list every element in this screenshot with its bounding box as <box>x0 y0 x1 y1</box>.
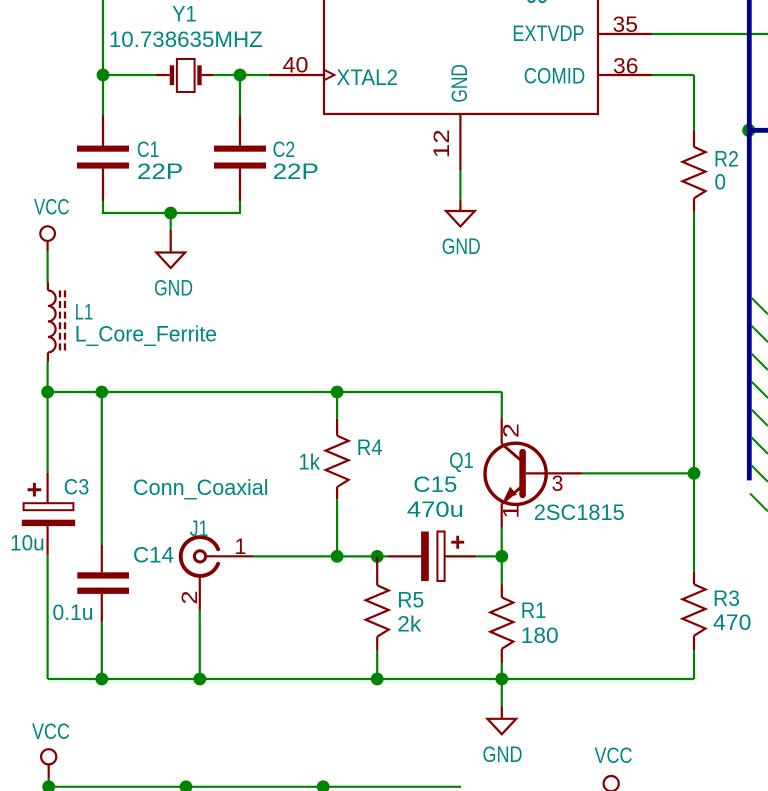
wire <box>693 212 695 474</box>
junction <box>371 673 384 686</box>
wire <box>48 391 502 393</box>
svg-text:R4: R4 <box>357 435 383 460</box>
junction <box>193 673 206 686</box>
svg-text:J1: J1 <box>190 516 209 541</box>
pin 36 <box>598 74 652 76</box>
wire <box>48 678 694 680</box>
wire <box>46 555 48 679</box>
junction <box>42 780 55 791</box>
junction on bus <box>742 124 755 137</box>
svg-text:C15: C15 <box>413 472 457 497</box>
ground <box>501 706 503 719</box>
wire <box>476 555 502 557</box>
junction <box>495 550 508 563</box>
svg-text:12: 12 <box>429 129 454 158</box>
svg-text:40: 40 <box>283 53 309 78</box>
junction <box>234 69 247 82</box>
capacitor C1 <box>102 116 104 146</box>
capacitor C2 <box>239 116 241 146</box>
wire <box>501 392 503 418</box>
svg-text:22P: 22P <box>273 159 319 184</box>
svg-text:10u: 10u <box>10 530 45 555</box>
bus <box>747 0 752 480</box>
svg-text:GND: GND <box>483 742 523 767</box>
svg-text:1: 1 <box>235 534 247 559</box>
resistor R2 <box>693 131 695 147</box>
svg-text:2SC1815: 2SC1815 <box>534 500 625 525</box>
power VCC <box>604 776 619 791</box>
wire <box>170 213 172 230</box>
svg-text:Q1: Q1 <box>449 448 474 473</box>
svg-text:XTAL2: XTAL2 <box>337 65 399 90</box>
wire <box>199 610 201 680</box>
wire <box>49 786 461 788</box>
svg-text:R1: R1 <box>521 598 547 623</box>
junction <box>95 386 108 399</box>
svg-text:1: 1 <box>498 504 523 519</box>
power VCC <box>40 226 55 241</box>
junction <box>41 386 54 399</box>
svg-text:C14: C14 <box>133 543 174 568</box>
junction <box>317 780 330 791</box>
wire <box>582 472 694 474</box>
svg-text:0: 0 <box>715 169 727 194</box>
svg-text:1k: 1k <box>298 449 321 474</box>
resistor R3 <box>693 572 695 584</box>
junction <box>180 780 193 791</box>
IC U1 <box>324 0 598 114</box>
wire <box>693 473 695 572</box>
pin name fragment <box>528 0 546 2</box>
ground <box>170 230 172 253</box>
svg-text:GND: GND <box>154 275 193 300</box>
svg-text:L_Core_Ferrite: L_Core_Ferrite <box>75 322 217 347</box>
svg-text:C3: C3 <box>64 475 90 500</box>
pin 12 <box>459 114 461 171</box>
svg-text:Y1: Y1 <box>172 2 197 27</box>
capacitor C14 <box>101 392 103 545</box>
crystal Y1 <box>156 74 170 76</box>
junction <box>97 69 110 82</box>
svg-text:180: 180 <box>521 623 559 648</box>
bus entries <box>752 298 768 314</box>
wire <box>46 362 48 392</box>
junction <box>331 550 344 563</box>
svg-text:Conn_Coaxial: Conn_Coaxial <box>133 475 269 500</box>
ground <box>459 200 461 211</box>
resistor R5 <box>376 556 378 585</box>
wire <box>101 622 103 679</box>
wire <box>239 75 241 116</box>
svg-text:470u: 470u <box>407 497 464 522</box>
svg-text:2k: 2k <box>397 612 422 637</box>
svg-text:R2: R2 <box>714 147 739 172</box>
svg-text:VCC: VCC <box>32 719 70 744</box>
svg-text:0.1u: 0.1u <box>53 600 94 625</box>
wire <box>102 0 104 75</box>
junction <box>371 550 384 563</box>
junction <box>688 467 701 480</box>
capacitor C3 <box>46 392 48 473</box>
svg-text:35: 35 <box>613 12 639 37</box>
svg-text:2: 2 <box>498 423 523 438</box>
wire <box>102 212 241 214</box>
wire <box>501 528 503 557</box>
inductor L1 <box>47 283 49 291</box>
resistor R1 <box>501 556 503 584</box>
wire <box>239 201 241 213</box>
svg-text:VCC: VCC <box>595 743 633 768</box>
junction <box>164 207 177 220</box>
wire <box>213 74 269 76</box>
wire <box>652 33 768 35</box>
wire <box>48 778 50 787</box>
wire <box>459 171 461 200</box>
wire <box>46 251 48 283</box>
capacitor C15 <box>387 555 421 557</box>
wire <box>103 74 156 76</box>
junction <box>495 673 508 686</box>
svg-text:GND: GND <box>442 234 481 259</box>
wire <box>254 555 387 557</box>
svg-text:COMID: COMID <box>524 64 586 89</box>
resistor R4 <box>336 392 338 419</box>
svg-text:470: 470 <box>713 610 751 635</box>
junction <box>95 673 108 686</box>
svg-text:10.738635MHZ: 10.738635MHZ <box>109 27 263 52</box>
wire <box>102 201 104 213</box>
power VCC <box>41 749 56 764</box>
pin 40 XTAL2 <box>269 74 324 76</box>
wire <box>652 74 694 76</box>
wire <box>501 679 503 706</box>
svg-text:EXTVDP: EXTVDP <box>512 21 584 46</box>
bus branch <box>749 128 768 133</box>
transistor Q1 <box>485 443 546 504</box>
svg-text:R3: R3 <box>713 586 740 611</box>
pin 35 <box>598 33 652 35</box>
svg-text:GND: GND <box>447 64 472 103</box>
svg-text:2: 2 <box>177 591 202 605</box>
svg-text:VCC: VCC <box>34 195 70 220</box>
svg-text:R5: R5 <box>397 588 424 613</box>
svg-text:22P: 22P <box>137 159 183 184</box>
connector J1 <box>181 537 218 576</box>
wire <box>102 75 104 116</box>
wire <box>693 75 695 131</box>
svg-text:36: 36 <box>613 54 639 79</box>
svg-text:3: 3 <box>552 471 564 496</box>
junction <box>331 386 344 399</box>
